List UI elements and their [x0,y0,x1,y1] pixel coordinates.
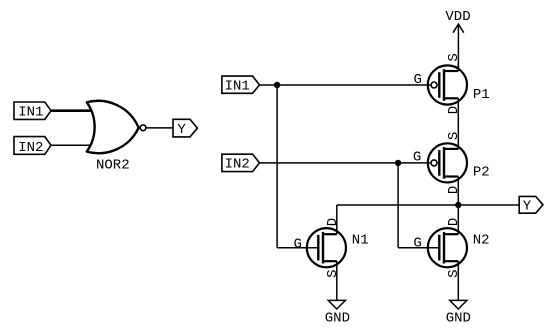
input flag IN2 (gate symbol) [14,137,51,156]
inversion bubble [140,125,146,131]
svg-text:P2: P2 [473,165,490,181]
wire N1 source to GND [336,261,338,300]
wire to N1 gate [277,247,318,249]
svg-text:NOR2: NOR2 [96,158,130,174]
ground GND (N1) [325,300,350,326]
wire bubble to Y flag [146,127,173,129]
pmos P2 [428,143,467,182]
svg-text:G: G [413,236,421,252]
node Y junction [455,202,461,208]
svg-text:D: D [446,106,462,114]
input flag IN1 (CMOS) [222,76,260,95]
svg-text:IN2: IN2 [18,140,43,156]
svg-text:S: S [325,269,341,277]
svg-text:VDD: VDD [445,9,470,25]
nmos N1 [307,228,346,267]
svg-text:Y: Y [523,199,532,215]
svg-text:Y: Y [177,122,186,138]
input flag IN1 (gate symbol) [14,102,51,121]
wire P1 drain to P2 source [457,98,459,149]
output flag Y (gate symbol) [173,119,197,138]
svg-text:G: G [413,72,421,88]
svg-text:GND: GND [446,311,471,327]
svg-text:D: D [446,218,462,226]
svg-text:N2: N2 [473,233,490,249]
svg-text:S: S [446,53,462,61]
svg-text:D: D [325,218,341,226]
pmos P1 [428,64,467,105]
wire IN1 to P1 gate [260,84,431,86]
svg-text:G: G [413,150,421,166]
svg-text:IN1: IN1 [18,105,43,121]
wire P2 drain to node Y [457,177,459,206]
NOR2 gate body [87,101,139,153]
wire N1 drain up to node Y [336,205,338,234]
svg-text:IN2: IN2 [225,157,250,173]
nmos N2 [428,228,467,267]
output flag Y (CMOS) [519,196,543,214]
svg-text:IN1: IN1 [225,79,250,95]
junction on IN2 net [395,160,401,166]
wire VDD to P1 source [457,24,459,71]
wire to N2 gate [398,247,439,249]
wire N2 drain down from node Y [457,205,459,234]
svg-text:GND: GND [325,311,350,327]
wire IN2 net down to N2 gate level [397,163,399,248]
svg-text:G: G [293,237,301,253]
svg-text:N1: N1 [352,233,369,249]
wire N2 source to GND [457,261,459,300]
wire IN1 to NOR2 input [51,109,96,112]
wire IN2 to P2 gate [260,162,431,164]
svg-text:P1: P1 [473,87,490,103]
svg-text:D: D [446,186,462,194]
input flag IN2 (CMOS) [222,154,260,173]
svg-text:S: S [446,132,462,140]
svg-text:S: S [446,269,462,277]
junction on IN1 net [274,82,280,88]
wire node Y horizontal [337,204,519,206]
VDD power arrow [453,24,464,33]
wire IN2 to NOR2 input [51,144,96,146]
wire IN1 net down to N1 gate level [276,85,278,248]
ground GND (N2) [446,300,471,326]
